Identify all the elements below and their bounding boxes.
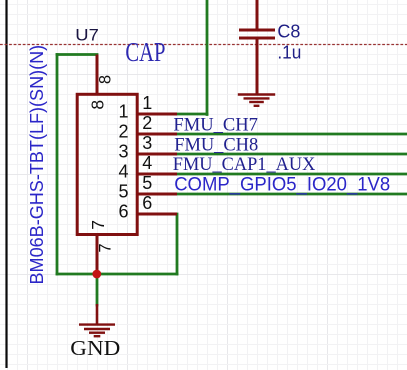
svg-text:C8: C8 (277, 21, 300, 41)
svg-text:.1u: .1u (277, 42, 301, 62)
svg-text:8: 8 (97, 75, 115, 84)
svg-text:U7: U7 (75, 26, 99, 45)
svg-text:1: 1 (142, 93, 152, 113)
svg-text:FMU_CH8: FMU_CH8 (174, 134, 258, 155)
svg-text:6: 6 (142, 193, 152, 213)
svg-text:3: 3 (118, 142, 128, 162)
svg-text:BM06B-GHS-TBT(LF)(SN)(N): BM06B-GHS-TBT(LF)(SN)(N) (27, 45, 47, 285)
svg-text:3: 3 (142, 133, 152, 153)
svg-text:2: 2 (118, 122, 128, 142)
svg-text:4: 4 (142, 153, 152, 173)
svg-text:FMU_CAP1_AUX: FMU_CAP1_AUX (173, 154, 316, 175)
svg-text:GND: GND (70, 336, 120, 360)
svg-text:1: 1 (118, 102, 128, 122)
svg-text:COMP_GPIO5_IO20_1V8: COMP_GPIO5_IO20_1V8 (174, 175, 390, 196)
svg-text:4: 4 (118, 162, 128, 182)
svg-text:8: 8 (87, 100, 107, 110)
svg-text:7: 7 (97, 243, 115, 252)
svg-text:FMU_CH7: FMU_CH7 (173, 114, 258, 135)
svg-text:6: 6 (118, 202, 128, 222)
svg-text:CAP: CAP (125, 37, 165, 67)
svg-text:2: 2 (142, 113, 152, 133)
svg-text:7: 7 (88, 220, 108, 230)
svg-text:5: 5 (118, 182, 128, 202)
svg-text:5: 5 (142, 173, 152, 193)
